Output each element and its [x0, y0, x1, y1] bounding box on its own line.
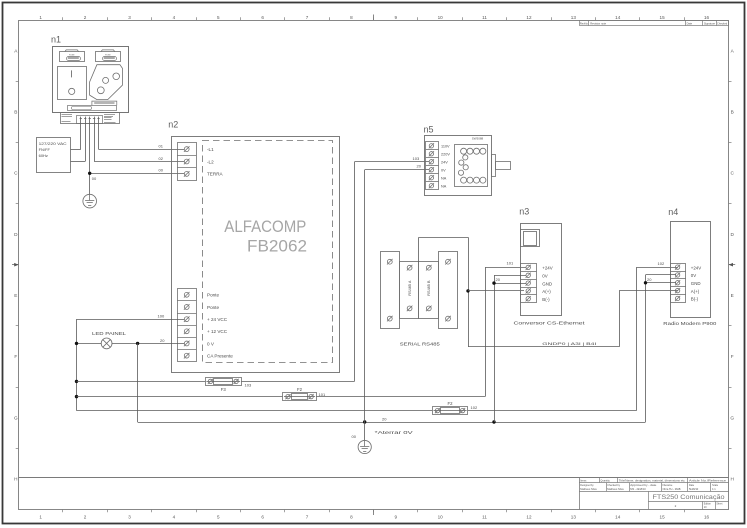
svg-text:16: 16 — [704, 514, 710, 519]
wire 02 n1 pin4 to n2 L2 — [94, 124, 184, 162]
svg-text:6: 6 — [261, 514, 264, 519]
junction F3 feed — [75, 380, 205, 383]
svg-text:110V: 110V — [441, 145, 450, 149]
junction rail / n5 0V drop — [363, 420, 366, 423]
svg-text:3: 3 — [128, 514, 131, 519]
svg-text:Radio Modem P900: Radio Modem P900 — [663, 321, 717, 326]
svg-text:11: 11 — [482, 15, 487, 20]
svg-text:Date: Date — [687, 21, 693, 25]
n5 output tab — [492, 155, 511, 177]
wire 20 n3 0V/GND — [494, 275, 526, 422]
svg-text:B: B — [14, 109, 17, 114]
svg-text:B(-): B(-) — [542, 297, 550, 302]
svg-text:103: 103 — [245, 382, 252, 387]
wire RS485 bus to node A — [419, 237, 469, 347]
svg-text:16: 16 — [704, 15, 710, 20]
svg-text:n5: n5 — [424, 124, 434, 134]
svg-text:13: 13 — [571, 514, 577, 519]
n5 terminal block — [426, 142, 439, 190]
AC supply box 127/220 VAC — [37, 138, 71, 173]
svg-text:15: 15 — [660, 15, 666, 20]
svg-text:GND: GND — [542, 281, 552, 286]
svg-text:101: 101 — [507, 261, 514, 266]
svg-text:Checked: Checked — [717, 21, 728, 25]
svg-text:220V: 220V — [441, 153, 450, 157]
serial RS485 terminal block — [381, 252, 458, 347]
svg-text:24V: 24V — [441, 161, 448, 165]
svg-text:G: G — [14, 415, 18, 420]
wire 103 F3 to n5 24V — [241, 156, 429, 382]
svg-text:SERIAL RS485: SERIAL RS485 — [400, 342, 441, 347]
svg-text:n3: n3 — [519, 207, 529, 217]
svg-text:0V: 0V — [542, 273, 547, 278]
svg-text:3: 3 — [128, 15, 131, 20]
label plate (n1) — [68, 101, 117, 110]
svg-text:F2: F2 — [297, 387, 303, 392]
n4 terminal block — [670, 264, 686, 303]
wire 01 n1 pin5 to n2 L1 — [99, 124, 185, 150]
power entry module n1 — [51, 35, 129, 124]
svg-text:60Hz: 60Hz — [39, 153, 48, 158]
terminal strip (n1) — [77, 116, 103, 124]
n3 pin labels — [542, 266, 552, 302]
n3 caption — [514, 320, 586, 325]
svg-text:Approved by - date: Approved by - date — [630, 484, 657, 487]
svg-text:Ponte: Ponte — [207, 305, 219, 310]
fuse F2 — [283, 387, 326, 401]
svg-text:5: 5 — [217, 514, 220, 519]
svg-text:Filename: Filename — [663, 484, 674, 487]
svg-text:Edition: Edition — [704, 502, 712, 505]
svg-text:+ 12 VCC: + 12 VCC — [207, 329, 228, 334]
svg-text:E: E — [14, 293, 17, 298]
svg-text:20: 20 — [382, 416, 387, 421]
wire n1 pin2 to AC box — [71, 124, 86, 162]
svg-text:-L1: -L1 — [207, 147, 214, 152]
svg-text:13: 13 — [571, 15, 577, 20]
svg-text:C: C — [731, 171, 735, 176]
svg-text:NA: NA — [441, 177, 447, 181]
svg-text:8: 8 — [350, 514, 353, 519]
junction lamp left — [75, 342, 78, 345]
IEC inlet connector (n1) — [90, 65, 123, 100]
controller n2 ALFACOMP FB2062 — [168, 119, 339, 372]
svg-text:FUSE: FUSE — [69, 54, 75, 56]
converter n3 — [519, 207, 561, 316]
svg-text:Items: Items — [580, 479, 587, 482]
junction n4 GND — [644, 281, 647, 284]
svg-text:102: 102 — [471, 405, 478, 410]
svg-text:0V: 0V — [441, 169, 446, 173]
junction rail / n3 0V drop — [492, 420, 495, 423]
svg-text:20: 20 — [417, 164, 422, 169]
svg-text:10: 10 — [438, 514, 444, 519]
svg-text:8: 8 — [350, 15, 353, 20]
n1 fine print left — [62, 115, 73, 122]
svg-text:5k18/10: 5k18/10 — [689, 487, 699, 491]
svg-text:127/220 VAC: 127/220 VAC — [39, 141, 67, 146]
svg-text:MS - 2k18/10: MS - 2k18/10 — [630, 487, 646, 491]
n2 terminal block bottom — [177, 289, 197, 362]
wire F1 feed — [77, 410, 433, 412]
svg-text:00: 00 — [352, 434, 357, 439]
svg-text:0V: 0V — [691, 273, 696, 278]
svg-text:14: 14 — [615, 514, 621, 519]
svg-text:D: D — [731, 232, 735, 237]
wire 102 F1 to n4 +24V — [468, 261, 678, 411]
junction F2 feed — [75, 395, 283, 398]
svg-text:FN/FF: FN/FF — [39, 147, 51, 152]
fuse F1 — [433, 401, 478, 415]
svg-text:00: 00 — [92, 176, 97, 181]
svg-text:15: 15 — [660, 514, 666, 519]
LED panel lamp — [92, 331, 127, 349]
svg-text:12: 12 — [526, 514, 532, 519]
svg-text:Signature: Signature — [704, 21, 716, 25]
wire n5 0V net 20 — [365, 164, 430, 441]
svg-text:Revision note: Revision note — [590, 21, 606, 25]
fuse F3 — [206, 378, 252, 393]
svg-text:9: 9 — [395, 514, 398, 519]
svg-text:CA Presente: CA Presente — [207, 353, 233, 358]
svg-text:ALFACOMP: ALFACOMP — [224, 218, 306, 236]
svg-text:Sheet: Sheet — [716, 502, 722, 505]
svg-text:100: 100 — [158, 314, 165, 319]
svg-text:20: 20 — [647, 277, 652, 282]
svg-text:FB2062: FB2062 — [247, 238, 307, 256]
svg-text:*Aterrar 0V: *Aterrar 0V — [375, 430, 413, 435]
n1 fine print right — [104, 115, 116, 123]
svg-text:SW3088: SW3088 — [472, 137, 484, 141]
svg-text:LED PAINEL: LED PAINEL — [92, 331, 127, 336]
n2 pin labels top — [207, 147, 224, 177]
radio modem n4 — [668, 207, 710, 318]
svg-text:9: 9 — [395, 15, 398, 20]
net 20 bottom rail — [138, 416, 646, 422]
svg-text:-L2: -L2 — [207, 159, 214, 164]
svg-text:FUSE: FUSE — [105, 54, 111, 56]
svg-text:RS485 B: RS485 B — [427, 280, 431, 296]
svg-text:GNDP0 | A3I | B4I: GNDP0 | A3I | B4I — [542, 342, 596, 346]
wire 00 n1 pin3 to n2 TERRA and ground — [90, 124, 185, 195]
fuse holder 1 (n1) — [60, 50, 85, 62]
svg-text:102: 102 — [658, 261, 665, 266]
svg-text:12: 12 — [526, 15, 532, 20]
ground symbol (mains earth) — [83, 194, 97, 208]
svg-text:RS485 A: RS485 A — [408, 280, 412, 295]
svg-text:20: 20 — [160, 338, 165, 343]
svg-text:+ 24 VCC: + 24 VCC — [207, 317, 228, 322]
svg-text:NA: NA — [441, 185, 447, 189]
svg-text:H: H — [731, 477, 734, 482]
svg-text:RevNo: RevNo — [580, 21, 588, 25]
svg-text:Article No./Reference: Article No./Reference — [689, 479, 727, 482]
wire 100 n2 +24VCC to left bus — [77, 314, 185, 411]
rocker switch (n1) — [58, 67, 87, 100]
n5 pin labels — [441, 145, 450, 189]
n2 pin labels bottom — [207, 293, 233, 359]
junction node 00 — [88, 172, 91, 175]
svg-text:TERRA: TERRA — [207, 172, 224, 177]
svg-text:7: 7 — [306, 514, 309, 519]
svg-text:Ponte: Ponte — [207, 293, 219, 298]
svg-text:Designed by: Designed by — [580, 484, 594, 487]
junction n3 GND — [492, 281, 495, 284]
svg-text:n2: n2 — [168, 119, 178, 129]
svg-text:0 V: 0 V — [207, 341, 215, 346]
svg-text:Obra TH - MHB: Obra TH - MHB — [663, 487, 681, 491]
svg-text:F: F — [14, 354, 17, 359]
svg-text:5: 5 — [217, 15, 220, 20]
svg-text:Scale: Scale — [712, 484, 719, 487]
svg-text:A(+): A(+) — [542, 289, 551, 294]
svg-text:14: 14 — [615, 15, 621, 20]
svg-text:11: 11 — [482, 514, 487, 519]
svg-text:A(+): A(+) — [691, 289, 700, 294]
svg-text:Checked by: Checked by — [607, 484, 620, 487]
svg-text:7: 7 — [306, 15, 309, 20]
svg-text:01: 01 — [159, 144, 164, 149]
svg-text:20: 20 — [496, 277, 501, 282]
svg-text:1: 1 — [39, 15, 42, 20]
svg-text:1:1: 1:1 — [712, 487, 716, 491]
svg-text:E: E — [731, 293, 734, 298]
svg-text:Quantity: Quantity — [600, 479, 610, 482]
wire n1 pin1 to AC box — [71, 124, 81, 150]
svg-text:02: 02 — [159, 156, 164, 161]
svg-text:00: 00 — [159, 168, 164, 173]
svg-text:2: 2 — [84, 514, 87, 519]
svg-text:H: H — [14, 477, 17, 482]
svg-text:F2: F2 — [448, 401, 454, 406]
svg-text:103: 103 — [413, 156, 420, 161]
svg-text:Matheus Silva: Matheus Silva — [607, 487, 624, 491]
svg-text:B(-): B(-) — [691, 297, 699, 302]
svg-text:G: G — [730, 415, 734, 420]
n3 terminal block — [521, 264, 537, 303]
svg-text:6: 6 — [261, 15, 264, 20]
svg-text:B: B — [731, 109, 734, 114]
svg-text:10: 10 — [438, 15, 444, 20]
wire 20 n4 0V/GND — [646, 275, 677, 423]
svg-text:Title/Name, designation, mater: Title/Name, designation, material, dimen… — [619, 479, 686, 482]
n4 caption — [663, 321, 717, 326]
svg-text:4: 4 — [173, 15, 176, 20]
switch module n5 — [424, 124, 492, 195]
svg-text:+24V: +24V — [542, 266, 552, 271]
svg-text:1: 1 — [39, 514, 42, 519]
n5 switch mechanism — [455, 145, 488, 187]
wire 101 F2 to n3 +24V — [316, 261, 526, 397]
n3 ethernet jack — [521, 230, 540, 247]
svg-text:2: 2 — [84, 15, 87, 20]
svg-text:F3: F3 — [221, 387, 227, 392]
wire bus to n3 A(+) — [468, 290, 524, 292]
fuse holder 2 (n1) — [96, 50, 121, 62]
svg-text:FTS250 Comunicação: FTS250 Comunicação — [653, 494, 726, 501]
svg-text:n1: n1 — [51, 35, 61, 45]
wire 20 lamp to n2 0V — [77, 338, 185, 344]
svg-text:n4: n4 — [668, 207, 678, 217]
svg-text:Date: Date — [689, 484, 695, 487]
junction lamp right / net 20 drop — [136, 342, 139, 422]
svg-text:GND: GND — [691, 281, 701, 286]
ground symbol Aterrar 0V — [352, 430, 413, 453]
svg-text:F: F — [731, 354, 734, 359]
n4 pin labels — [691, 265, 701, 301]
svg-text:Matheus Silva: Matheus Silva — [580, 487, 597, 491]
svg-text:+24V: +24V — [691, 265, 701, 270]
n2 terminal block top (L1 L2 TERRA) — [177, 143, 197, 181]
junction node A bus — [466, 289, 469, 292]
svg-text:Conversor CS-Ethernet: Conversor CS-Ethernet — [514, 320, 586, 325]
wire bus to n4 A(+) cable GNDP0|A3|B4 — [468, 291, 678, 347]
svg-text:4: 4 — [173, 514, 176, 519]
